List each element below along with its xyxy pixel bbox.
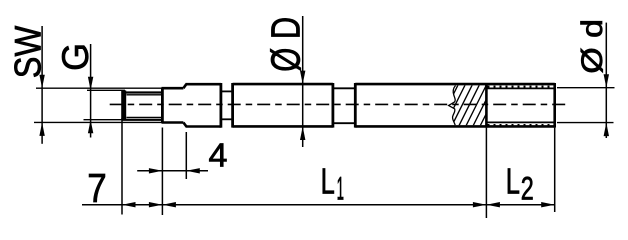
extension line thread start (121, 118, 123, 215)
diameter d dimension line (605, 23, 607, 138)
label L2 (506, 160, 534, 206)
hex collar section outline (162, 84, 187, 126)
label 4 (209, 137, 228, 174)
sleeve right end edge (553, 83, 556, 128)
SW extension lines (34, 88, 162, 122)
label 7 (87, 165, 107, 211)
arrow 4 right (186, 168, 200, 173)
SW arrow top (39, 75, 44, 89)
thread end cap (121, 90, 126, 119)
G arrow top (88, 77, 93, 91)
svg-text:4: 4 (209, 137, 228, 174)
diameter d extension lines (557, 88, 615, 123)
diameter D arrow top (300, 71, 305, 85)
thread root lines (127, 95, 162, 118)
thread major diameter lines (123, 93, 163, 120)
svg-text:Ø d: Ø d (576, 19, 609, 74)
diameter d arrow top (604, 74, 609, 88)
G extension lines (84, 90, 126, 119)
svg-text:1: 1 (337, 170, 344, 206)
G dimension line (90, 44, 92, 138)
label G (55, 43, 96, 71)
dimension line 4 (137, 170, 208, 172)
bottom dimension line (82, 204, 555, 206)
shaft section D outline (233, 83, 333, 128)
collar section C outline (186, 83, 221, 128)
extension line collar end (185, 132, 187, 179)
arrow L2 left (486, 202, 500, 207)
arrow 7 left (122, 202, 136, 207)
arrow 4 left (149, 168, 163, 173)
label L1 (321, 160, 344, 206)
groove 2 (333, 83, 355, 128)
centerline (110, 103, 566, 105)
label diameter d (576, 19, 609, 74)
svg-text:2: 2 (521, 170, 534, 206)
G arrow bottom (88, 120, 93, 134)
arrow L1 left (162, 202, 176, 207)
diameter D dimension line (302, 16, 304, 147)
sleeve bore inner lines (488, 88, 555, 122)
extension line sleeve end (554, 128, 556, 212)
sleeve left end edge (485, 83, 488, 128)
svg-text:7: 7 (87, 165, 107, 211)
shaft section E and sleeve outer outline (355, 84, 554, 126)
diameter d arrow bottom (604, 123, 609, 137)
sleeve bore hidden thread lines (dashed) (488, 87, 555, 125)
arrow L1 right (473, 202, 487, 207)
groove 1 (221, 83, 233, 128)
label diameter D (262, 17, 308, 72)
label SW (7, 25, 49, 78)
svg-text:SW: SW (7, 25, 49, 78)
svg-text:Ø D: Ø D (262, 17, 308, 72)
SW arrow bottom (39, 122, 44, 135)
svg-text:L: L (506, 160, 520, 201)
svg-text:L: L (321, 160, 335, 201)
diameter D arrow bottom (300, 127, 305, 141)
arrow L2 right (541, 202, 555, 207)
extension line collar start (161, 128, 163, 216)
arrow 7 right (149, 202, 163, 207)
extension line sleeve start (485, 128, 487, 218)
hatch of sectioned area (437, 83, 516, 127)
svg-text:G: G (55, 43, 96, 71)
section break wavy line (449, 86, 456, 126)
SW dimension line (41, 26, 43, 144)
